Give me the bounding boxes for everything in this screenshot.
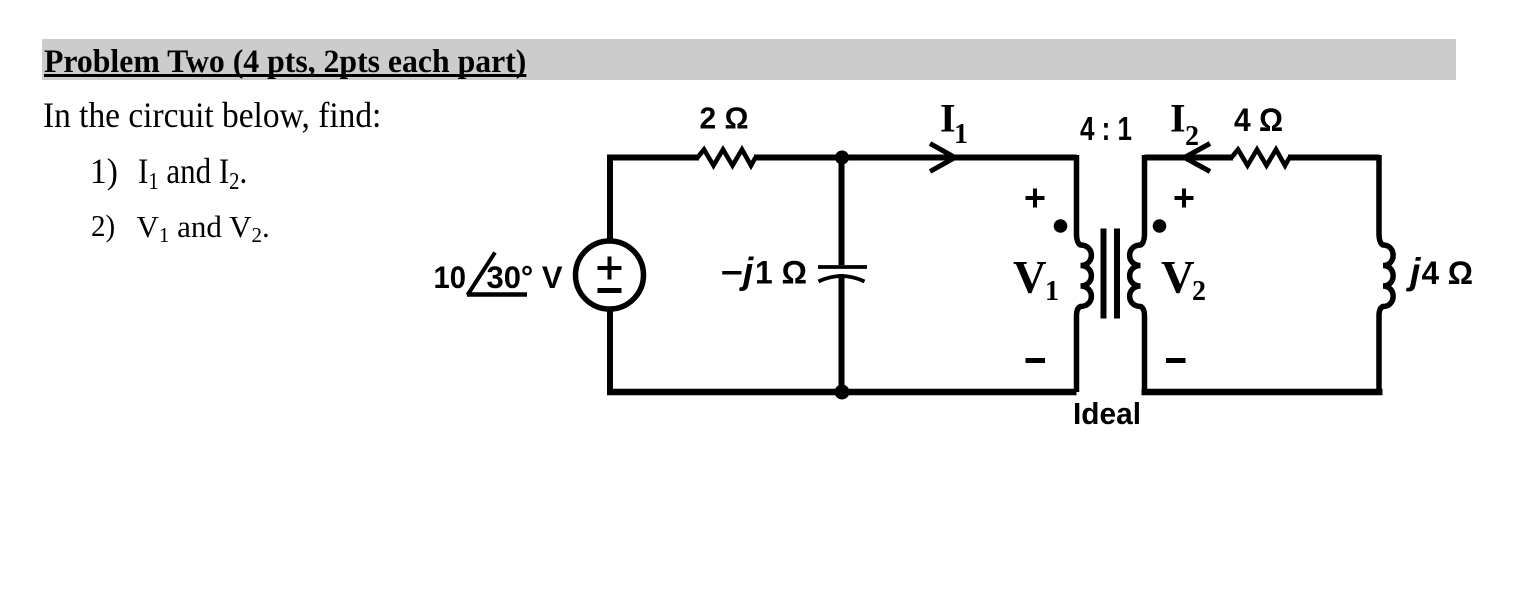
svg-text:V: V <box>1161 253 1195 304</box>
svg-text:2: 2 <box>1192 276 1206 307</box>
svg-text:1 Ω: 1 Ω <box>755 255 807 291</box>
svg-text:4 Ω: 4 Ω <box>1234 102 1283 138</box>
svg-text:10: 10 <box>434 259 467 295</box>
svg-text:2: 2 <box>1185 121 1199 152</box>
svg-text:1: 1 <box>954 119 968 150</box>
svg-text:j: j <box>1405 250 1422 292</box>
svg-text:4 : 1: 4 : 1 <box>1080 110 1132 147</box>
svg-text:I: I <box>1170 96 1186 141</box>
svg-text:V: V <box>1013 253 1047 304</box>
svg-text:−: − <box>721 255 744 291</box>
svg-text:Ideal: Ideal <box>1073 396 1141 431</box>
svg-text:4 Ω: 4 Ω <box>1422 255 1474 291</box>
svg-text:2 Ω: 2 Ω <box>700 101 749 136</box>
svg-text:30° V: 30° V <box>487 259 563 295</box>
svg-text:1: 1 <box>1045 276 1059 307</box>
